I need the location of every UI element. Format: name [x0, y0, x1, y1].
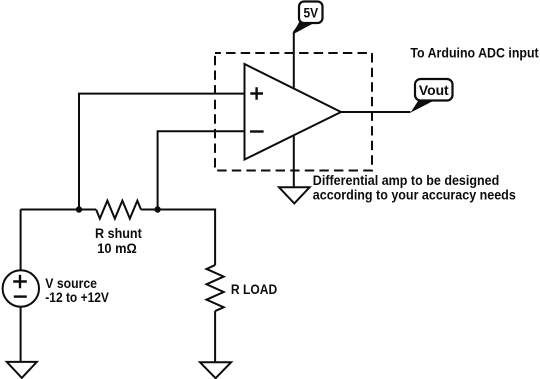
wire below R LOAD [214, 311, 216, 362]
V source plus marker [13, 275, 27, 288]
wire non-inverting input [79, 94, 245, 210]
ground op-amp [279, 187, 310, 203]
svg-text:10 mΩ: 10 mΩ [97, 241, 137, 256]
svg-text:V source: V source [45, 276, 97, 291]
V source V1 [3, 270, 39, 306]
ground R LOAD [200, 362, 231, 378]
wire V source top [20, 210, 22, 271]
wire V- supply to ground [293, 135, 295, 187]
V source minus marker [14, 295, 27, 297]
5V net label box [299, 2, 323, 24]
wire bottom rail [21, 210, 216, 266]
ground V source [7, 362, 37, 378]
op-amp minus marker [250, 130, 264, 132]
svg-text:according to your accuracy nee: according to your accuracy needs [313, 188, 516, 203]
wire V source bottom [20, 306, 22, 362]
junction node at non-inverting sense [76, 206, 82, 212]
svg-text:Vout: Vout [419, 83, 449, 98]
resistor R LOAD [207, 265, 224, 311]
wire inverting input [158, 131, 245, 209]
resistor R shunt [96, 201, 141, 219]
wire op-amp output [341, 111, 411, 113]
junction node at inverting sense [154, 206, 160, 212]
svg-text:-12 to +12V: -12 to +12V [45, 290, 109, 305]
dashed boundary box around amp [215, 53, 372, 171]
svg-text:To Arduino ADC input: To Arduino ADC input [410, 45, 539, 60]
wire V+ supply [294, 25, 300, 89]
svg-text:5V: 5V [304, 5, 319, 20]
svg-text:R shunt: R shunt [95, 226, 142, 241]
Vout flag pointer [411, 100, 435, 113]
5V flag pointer [293, 20, 315, 35]
svg-text:Differential amp to be designe: Differential amp to be designed [313, 173, 500, 188]
svg-text:R LOAD: R LOAD [231, 282, 278, 297]
op-amp U1 [245, 64, 342, 160]
Vout net label box [415, 79, 453, 101]
op-amp plus marker [250, 87, 263, 100]
